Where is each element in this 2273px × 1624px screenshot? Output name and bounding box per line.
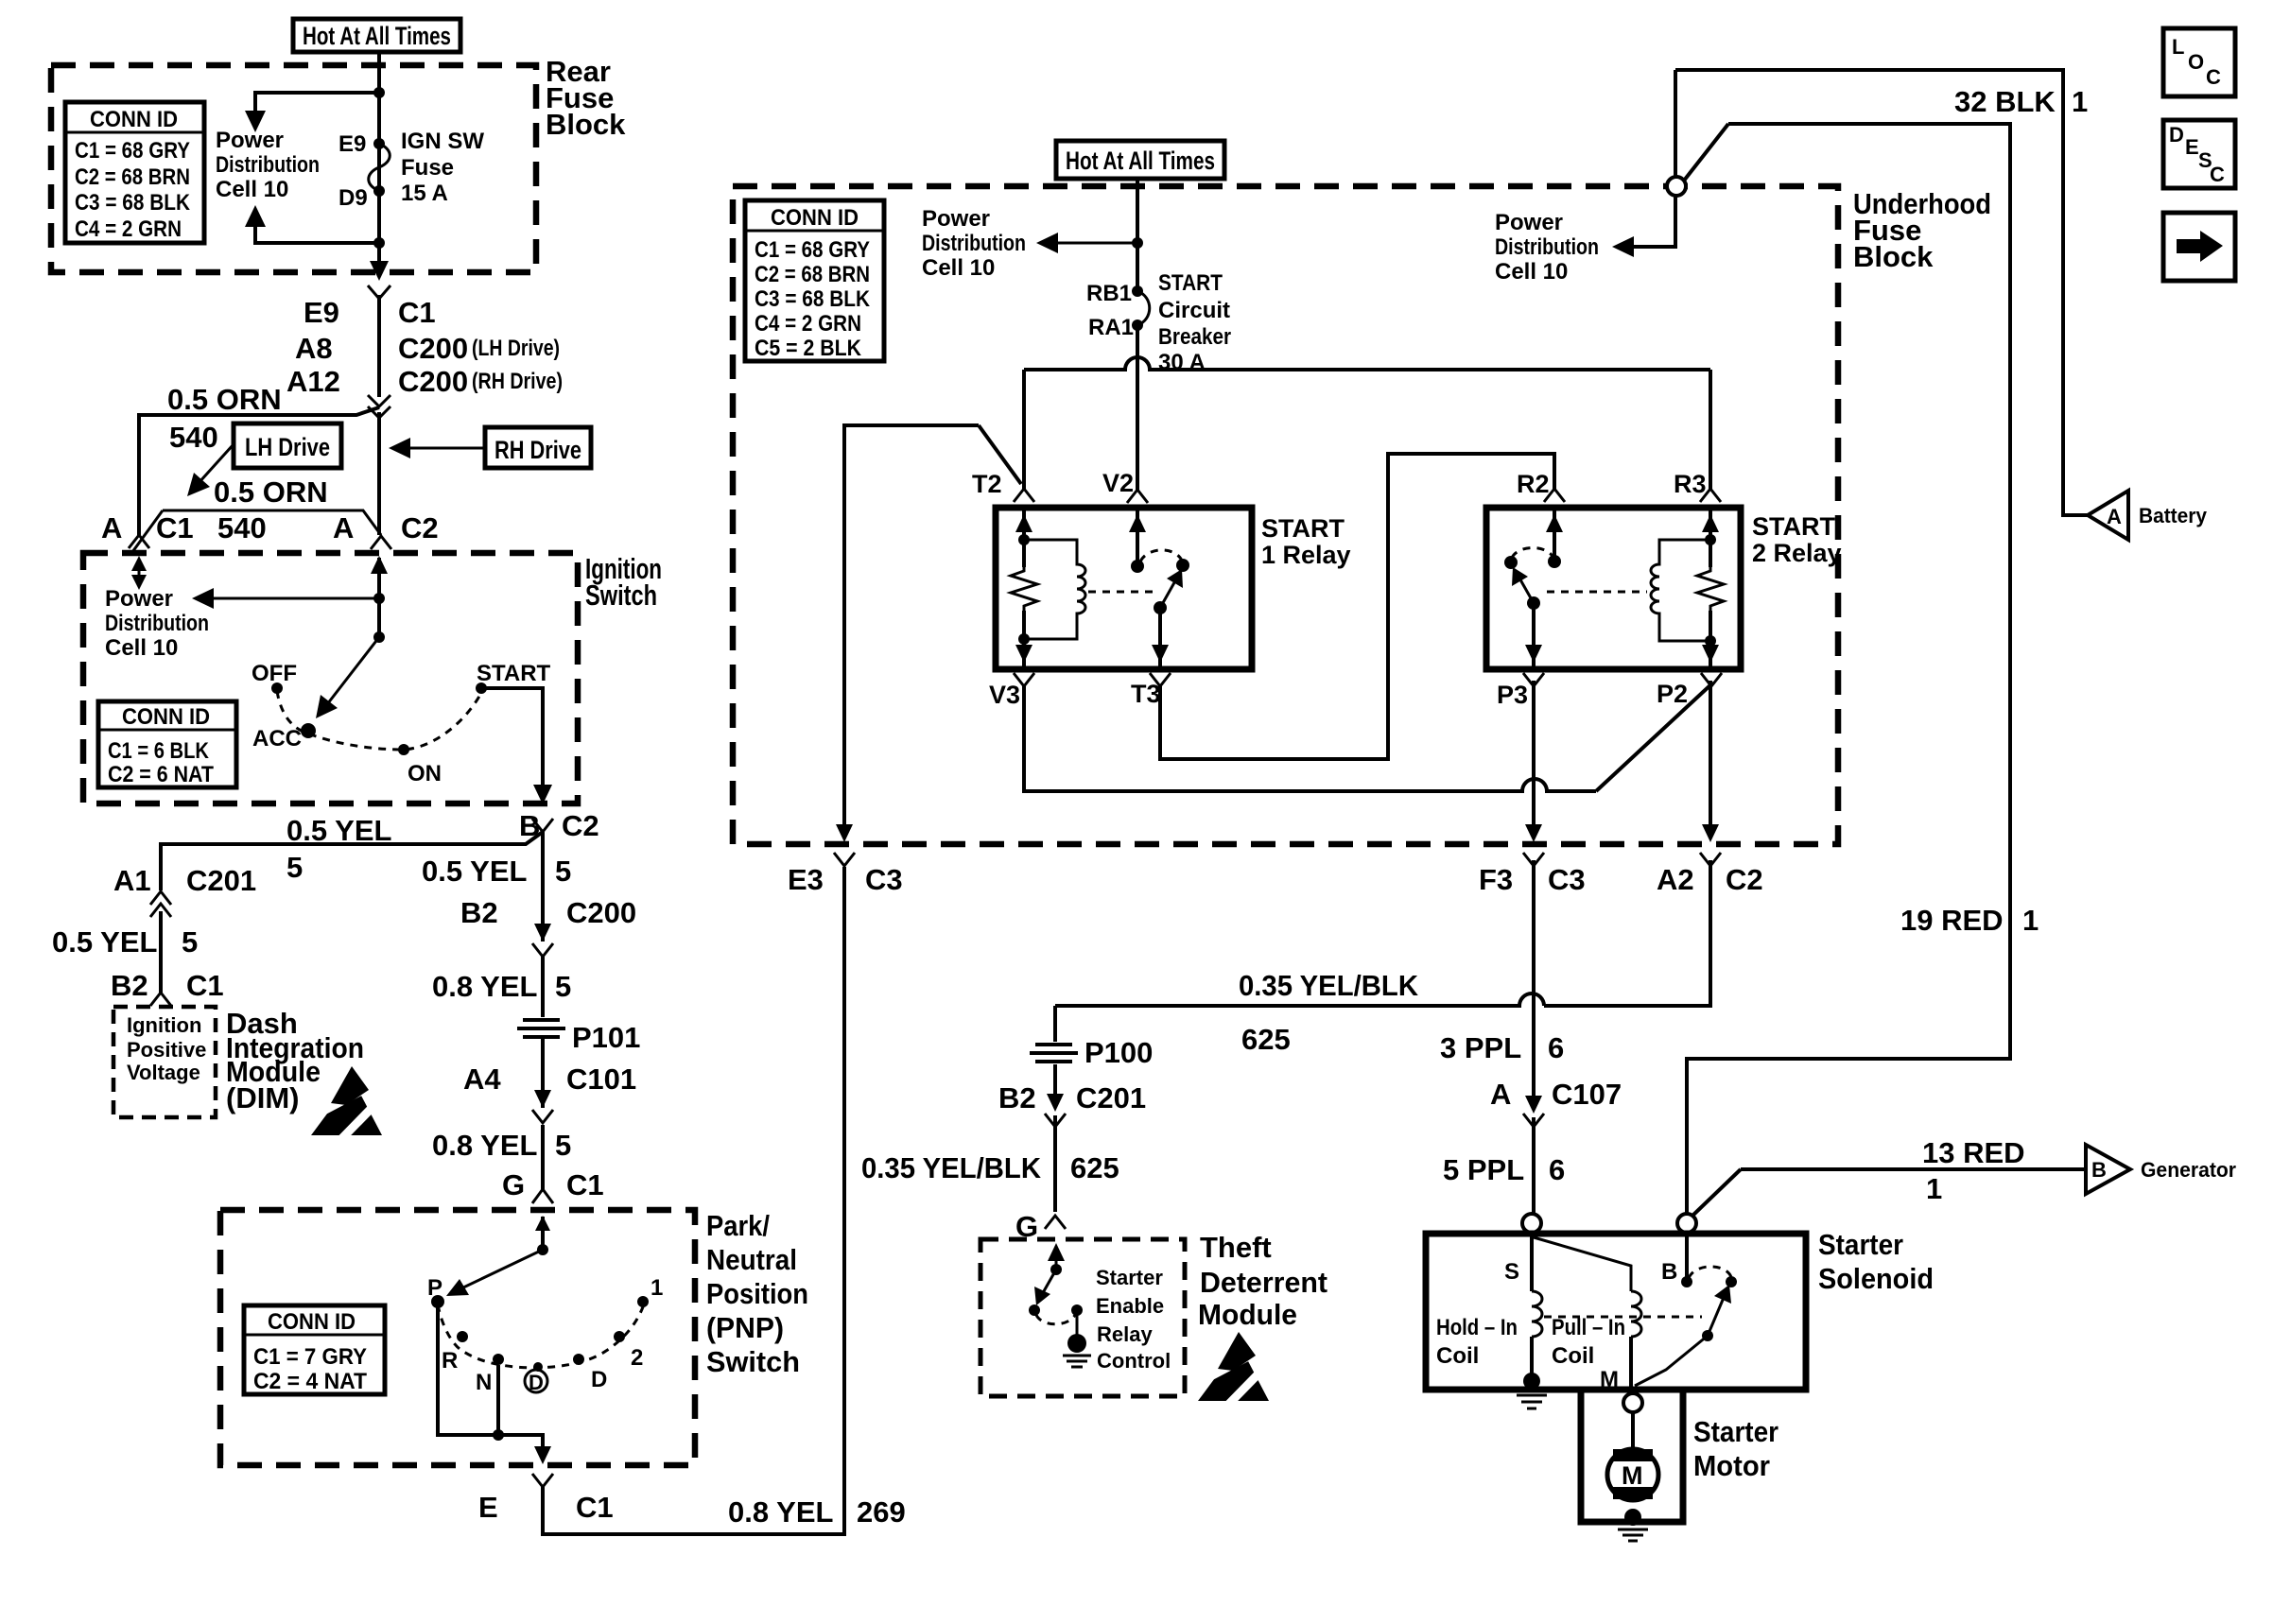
label: Power Distribution Cell 10 (right) <box>1495 210 1599 285</box>
svg-text:Power: Power <box>1495 210 1563 235</box>
coil (relay 1) <box>1024 540 1085 639</box>
svg-text:Solenoid: Solenoid <box>1818 1262 1934 1295</box>
terminal circle: solenoid S <box>1522 1214 1541 1233</box>
svg-text:Distribution: Distribution <box>1495 234 1599 260</box>
node: D drive circled <box>525 1362 547 1394</box>
box: Starter Motor <box>1581 1390 1683 1522</box>
label: 0.5 YEL / 5 (main) <box>422 855 571 888</box>
relay1 open contact <box>1176 559 1189 572</box>
label: Underhood Fuse Block <box>1853 187 1991 273</box>
svg-text:C1: C1 <box>576 1491 614 1524</box>
svg-text:Cell 10: Cell 10 <box>105 635 178 661</box>
svg-text:5: 5 <box>555 855 571 888</box>
node: junction power distribution (underhood) <box>1132 237 1143 249</box>
svg-text:P3: P3 <box>1497 681 1528 709</box>
dashed box: Theft Deterrent Module <box>980 1239 1185 1396</box>
svg-text:B: B <box>2091 1158 2107 1182</box>
wire: N contact to output <box>496 1365 500 1435</box>
svg-text:P2: P2 <box>1657 680 1688 708</box>
switch wiper arm (PNP) <box>446 1250 543 1296</box>
svg-text:Switch: Switch <box>706 1345 800 1378</box>
label: 0.8 YEL / 269 <box>728 1495 906 1529</box>
svg-text:0.5 ORN: 0.5 ORN <box>214 475 328 509</box>
label: Starter Motor <box>1693 1415 1778 1482</box>
svg-text:Coil: Coil <box>1436 1343 1479 1369</box>
wire: P3 down through underhood edge <box>1532 681 1536 832</box>
relay1 coil branch pin T2 <box>1015 508 1032 669</box>
svg-text:A12: A12 <box>286 365 340 398</box>
svg-text:C: C <box>2210 163 2225 186</box>
terminal circle: solenoid M <box>1623 1393 1642 1412</box>
dashed arc (solenoid armature travel) <box>1689 1267 1731 1278</box>
svg-text:B2: B2 <box>460 896 498 929</box>
dashed box: Rear Fuse Block <box>51 65 536 272</box>
svg-text:625: 625 <box>1241 1023 1291 1056</box>
svg-text:E9: E9 <box>304 296 339 329</box>
svg-text:Generator: Generator <box>2141 1158 2236 1182</box>
table: CONN ID (rear fuse block) <box>65 102 204 243</box>
svg-text:Pull – In: Pull – In <box>1552 1315 1625 1340</box>
wire: lower 540 link between A/C1 and A/C2 <box>163 510 381 535</box>
svg-text:C3: C3 <box>1548 863 1586 896</box>
wire: B/C2 down and left to A1 branch <box>161 832 543 890</box>
wire: main vertical to ignition switch <box>377 412 381 535</box>
hold-in coil <box>1532 1291 1542 1337</box>
label: B2 / C201 row <box>998 1081 1146 1114</box>
arrow: into PNP switch <box>535 1216 550 1231</box>
svg-text:E: E <box>2185 135 2199 159</box>
wire: 0.8 YEL 269 run to underhood E3 <box>543 867 844 1534</box>
svg-text:ACC: ACC <box>252 726 302 752</box>
svg-text:P100: P100 <box>1084 1036 1153 1069</box>
connector C2 at ignition B <box>532 819 553 832</box>
connector C1 at DIM B2 <box>150 993 171 1006</box>
label: A12 / C200 (RH Drive) row <box>286 365 563 398</box>
svg-text:Theft: Theft <box>1200 1231 1272 1264</box>
wire: E3 riser and link to T2 <box>844 425 1021 832</box>
wire: hot feed vertical into rear fuse block <box>377 52 381 270</box>
svg-text:(RH Drive): (RH Drive) <box>472 369 563 394</box>
svg-text:Cell 10: Cell 10 <box>216 177 288 202</box>
wire: power distribution tap lower <box>255 224 379 243</box>
svg-text:Distribution: Distribution <box>922 231 1026 256</box>
svg-text:RA1: RA1 <box>1088 315 1134 340</box>
svg-text:15 A: 15 A <box>401 181 448 206</box>
wire: P100 to C201 <box>1053 1064 1057 1108</box>
connector P2 <box>1701 673 1722 686</box>
label: 0.35 YEL/BLK / 625 <box>861 1151 1119 1184</box>
wire: C101 to G/C1 <box>541 1125 545 1189</box>
svg-text:C200: C200 <box>566 896 636 929</box>
wire: 19 RED run from terminal to solenoid B <box>1684 124 2010 1213</box>
generator triangle: B Generator <box>2086 1145 2236 1194</box>
svg-text:1: 1 <box>651 1275 663 1301</box>
connector C200 double chevron <box>368 395 390 418</box>
svg-text:Park/: Park/ <box>706 1209 770 1242</box>
wire: P101 to C101 <box>541 1038 545 1108</box>
relay box: START 2 Relay <box>1486 508 1741 669</box>
svg-text:540: 540 <box>169 421 218 454</box>
svg-text:Hot At All Times: Hot At All Times <box>303 22 451 50</box>
wire: into PNP switch <box>541 1217 545 1250</box>
svg-text:Module: Module <box>1198 1298 1297 1331</box>
connector C1 at E9 <box>368 285 390 299</box>
label: Park/Neutral Position (PNP) Switch <box>706 1209 808 1378</box>
label: START Circuit Breaker 30 A <box>1158 270 1231 375</box>
svg-text:LH Drive: LH Drive <box>245 433 330 461</box>
svg-text:A: A <box>101 511 122 544</box>
connector C1 at PNP E <box>532 1474 553 1487</box>
svg-text:B: B <box>1661 1259 1677 1285</box>
connector V2 <box>1127 490 1148 503</box>
connector C107 at A (arrow+chevron) <box>1523 1096 1544 1127</box>
label: A2 / C2 row <box>1657 863 1763 896</box>
svg-text:CONN ID: CONN ID <box>122 704 210 730</box>
wire: S diagonal to pull-in coil <box>1534 1237 1631 1291</box>
svg-text:START: START <box>1158 270 1223 296</box>
label: 0.8 YEL / 5 (upper) <box>432 970 571 1003</box>
svg-text:D: D <box>529 1371 544 1394</box>
svg-text:Hold – In: Hold – In <box>1436 1315 1518 1340</box>
connector C3 at E3 <box>834 853 855 866</box>
label box: Hot At All Times (rear) <box>293 19 460 52</box>
svg-text:Voltage: Voltage <box>127 1061 200 1084</box>
svg-text:E: E <box>478 1491 498 1524</box>
svg-text:625: 625 <box>1070 1151 1119 1184</box>
wire: A1 to DIM <box>159 911 163 993</box>
svg-text:5: 5 <box>555 1129 571 1162</box>
svg-text:C2 = 4 NAT: C2 = 4 NAT <box>253 1369 367 1394</box>
dashed arc (relay 2 armature travel) <box>1512 548 1553 559</box>
svg-text:Distribution: Distribution <box>216 152 320 178</box>
wire: T3 loop to R2 <box>1160 454 1554 759</box>
svg-text:Control: Control <box>1097 1349 1171 1373</box>
svg-text:B2: B2 <box>998 1081 1036 1114</box>
relay1 switch pin V2 <box>1129 508 1146 573</box>
splice P100 <box>1030 1036 1153 1069</box>
wire: hold-in coil to ground <box>1530 1337 1534 1378</box>
svg-text:(DIM): (DIM) <box>226 1081 299 1114</box>
theft module: relay coil to ground <box>1063 1304 1091 1367</box>
dashed link (solenoid) <box>1544 1316 1702 1319</box>
arrow: down to power distribution text <box>245 111 266 132</box>
label: E3 / C3 row <box>788 863 903 896</box>
wire: A2 drop from underhood <box>1709 681 1712 832</box>
wire: ignition feed down right branch <box>541 957 545 1017</box>
svg-text:S: S <box>1504 1259 1519 1285</box>
svg-text:0.5 YEL: 0.5 YEL <box>286 814 391 847</box>
svg-text:T3: T3 <box>1131 680 1161 708</box>
wire: breaker output down to V2 <box>1136 325 1139 491</box>
splice P101 <box>517 1020 640 1054</box>
svg-text:E3: E3 <box>788 863 824 896</box>
wire: diagonal into A/C1 connector <box>132 510 163 552</box>
connector C201 at B2 (arrow+chevron) <box>1045 1094 1066 1127</box>
svg-text:CONN ID: CONN ID <box>771 205 859 231</box>
svg-text:A: A <box>333 511 354 544</box>
svg-text:32 BLK: 32 BLK <box>1954 85 2056 118</box>
svg-text:Power: Power <box>216 128 284 153</box>
solenoid open contact <box>1726 1276 1737 1287</box>
svg-text:Cell 10: Cell 10 <box>922 255 995 281</box>
svg-text:A: A <box>1490 1078 1511 1111</box>
svg-text:A1: A1 <box>113 864 151 897</box>
svg-text:1: 1 <box>1926 1172 1942 1205</box>
arrow: ignition power distribution left <box>192 588 379 609</box>
node: N contact <box>493 1354 504 1365</box>
label: Starter Solenoid <box>1818 1228 1934 1295</box>
label: Theft Deterrent Module <box>1198 1231 1327 1331</box>
svg-text:G: G <box>502 1168 525 1201</box>
svg-text:C1 = 7 GRY: C1 = 7 GRY <box>253 1344 367 1370</box>
solenoid contact: B pin <box>1681 1233 1692 1287</box>
svg-text:1: 1 <box>2072 85 2088 118</box>
svg-text:M: M <box>1622 1461 1643 1490</box>
node: P contact <box>431 1295 444 1308</box>
node: PNP wiper junction <box>537 1244 548 1255</box>
svg-text:Deterrent: Deterrent <box>1200 1266 1327 1299</box>
wire: 32 BLK battery feed <box>1675 70 2088 515</box>
svg-text:N: N <box>476 1370 492 1395</box>
resistor (relay 1) <box>1011 565 1037 613</box>
svg-text:Starter: Starter <box>1818 1228 1903 1261</box>
label: A8 / C200 (LH Drive) row <box>295 332 560 365</box>
connector T2 <box>1014 489 1034 502</box>
svg-text:D9: D9 <box>338 185 368 211</box>
node: 1 contact <box>637 1296 649 1307</box>
svg-text:V2: V2 <box>1102 469 1134 497</box>
label: B2 / C1 row <box>111 969 224 1002</box>
connector C2 at ignition A (right) <box>371 536 391 549</box>
svg-text:5: 5 <box>555 970 571 1003</box>
svg-text:0.35 YEL/BLK: 0.35 YEL/BLK <box>1239 969 1419 1002</box>
svg-text:Hot At All Times: Hot At All Times <box>1066 147 1215 175</box>
svg-text:1 Relay: 1 Relay <box>1261 541 1351 569</box>
svg-text:C101: C101 <box>566 1063 636 1096</box>
dashed link (relay 2) <box>1547 591 1647 594</box>
svg-text:5: 5 <box>286 851 303 884</box>
node: 2 contact <box>614 1331 625 1342</box>
coil (relay 2) <box>1651 540 1710 641</box>
svg-text:L: L <box>2172 35 2184 59</box>
motor M symbol <box>1607 1412 1658 1500</box>
svg-text:1: 1 <box>2022 904 2039 937</box>
svg-text:F3: F3 <box>1479 863 1513 896</box>
label: START 2 Relay <box>1752 512 1842 567</box>
svg-text:C2 = 68 BRN: C2 = 68 BRN <box>75 164 190 190</box>
label: 0.8 YEL / 5 (lower) <box>432 1129 571 1162</box>
svg-text:13 RED: 13 RED <box>1922 1136 2025 1169</box>
label: Ignition Positive Voltage <box>127 1013 206 1084</box>
svg-text:0.5 YEL: 0.5 YEL <box>52 925 157 959</box>
ground: starter motor <box>1618 1509 1648 1541</box>
node: wiper junction <box>373 631 385 643</box>
label: Rear Fuse Block <box>546 55 626 141</box>
svg-text:T2: T2 <box>972 470 1002 498</box>
svg-text:Starter: Starter <box>1693 1415 1778 1448</box>
svg-text:Battery: Battery <box>2139 504 2208 527</box>
connector C1 at PNP G <box>532 1189 553 1203</box>
svg-text:269: 269 <box>857 1495 906 1529</box>
wire: B/C2 main down <box>541 832 545 942</box>
label: E9 / C1 row <box>304 296 436 329</box>
label box: Hot At All Times (underhood) <box>1056 141 1224 179</box>
svg-text:5: 5 <box>182 925 198 959</box>
svg-text:D: D <box>2169 123 2184 147</box>
svg-text:IGN SW: IGN SW <box>401 129 484 154</box>
label: E / C1 row <box>478 1491 614 1524</box>
svg-text:5 PPL: 5 PPL <box>1443 1153 1524 1186</box>
svg-text:Coil: Coil <box>1552 1343 1594 1369</box>
svg-text:D: D <box>591 1367 607 1392</box>
svg-text:C2: C2 <box>401 511 439 544</box>
svg-text:ON: ON <box>408 761 442 786</box>
wire: rail down to T2 <box>1022 370 1026 490</box>
svg-text:0.5 ORN: 0.5 ORN <box>167 383 282 416</box>
relay box: START 1 Relay <box>996 508 1252 669</box>
box: DESC legend <box>2163 120 2235 188</box>
dashed box: PNP switch <box>220 1210 695 1465</box>
wire: hot feed vertical (underhood) <box>1136 179 1139 291</box>
node: OFF contact <box>271 682 283 694</box>
svg-text:A4: A4 <box>463 1063 501 1096</box>
relay2 switch pin R2 <box>1546 508 1563 568</box>
symbol: ESD warning (DIM) <box>311 1066 382 1140</box>
svg-text:CONN ID: CONN ID <box>268 1309 356 1335</box>
svg-text:P: P <box>427 1275 442 1301</box>
svg-text:540: 540 <box>217 511 267 544</box>
label: G / C1 row <box>502 1168 604 1201</box>
node: R contact <box>457 1331 468 1342</box>
dashed box: Ignition Switch <box>83 553 578 803</box>
label: A / C107 row <box>1490 1078 1622 1111</box>
relay2 armature arm <box>1512 567 1540 610</box>
svg-text:C200: C200 <box>398 332 468 365</box>
arrow: LH Drive to wire <box>187 444 234 496</box>
svg-text:(PNP): (PNP) <box>706 1311 784 1344</box>
svg-text:START: START <box>1261 514 1345 543</box>
node: junction at bottom of fuse <box>373 237 385 249</box>
svg-text:0.8 YEL: 0.8 YEL <box>728 1495 833 1529</box>
arrow: into ignition switch main <box>371 556 388 598</box>
svg-text:R3: R3 <box>1674 470 1707 498</box>
node: junction to power distribution arrow <box>373 593 385 604</box>
label: Hold-In Coil <box>1436 1315 1518 1369</box>
battery triangle: A Battery <box>2088 491 2208 540</box>
svg-text:2 Relay: 2 Relay <box>1752 539 1842 567</box>
label: A4 / C101 row <box>463 1063 636 1096</box>
svg-text:C3: C3 <box>865 863 903 896</box>
dashed link (relay 1) <box>1088 591 1157 594</box>
arrow: PNP output leaving box <box>534 1446 551 1464</box>
svg-text:C2: C2 <box>562 809 599 842</box>
svg-text:C4 = 2 GRN: C4 = 2 GRN <box>755 311 861 337</box>
label: Pull-In Coil <box>1552 1315 1625 1369</box>
svg-text:C201: C201 <box>186 864 256 897</box>
node: ACC contact <box>301 723 316 738</box>
svg-text:C1: C1 <box>566 1168 604 1201</box>
svg-text:3 PPL: 3 PPL <box>1440 1031 1521 1064</box>
svg-text:0.8 YEL: 0.8 YEL <box>432 970 537 1003</box>
switch wiper arm (ignition) <box>316 637 379 718</box>
resistor (relay 2) <box>1697 565 1724 613</box>
dashed arc: ignition detent path <box>277 691 481 750</box>
connector V3 <box>1014 673 1034 686</box>
wire: START to B/C2 <box>481 688 543 794</box>
label: A / C1 540 A / C2 row <box>101 511 439 544</box>
svg-text:0.5 YEL: 0.5 YEL <box>422 855 527 888</box>
table: CONN ID (PNP) <box>244 1305 385 1394</box>
connector R2 <box>1544 489 1565 502</box>
terminal circle: solenoid B <box>1677 1214 1696 1233</box>
wire: P contact to output <box>438 1307 543 1454</box>
table: CONN ID (underhood) <box>745 200 884 361</box>
svg-text:Fuse: Fuse <box>401 155 454 181</box>
wire: rail down to R3 <box>1709 370 1712 490</box>
symbol: double arrow to power distribution (ignition) <box>131 556 147 590</box>
wire: 32 BLK into underhood top <box>1674 70 1677 179</box>
ground: solenoid <box>1517 1373 1547 1408</box>
connector C2 at A2 <box>1700 853 1721 866</box>
svg-text:C5 = 2 BLK: C5 = 2 BLK <box>755 336 862 361</box>
svg-text:P101: P101 <box>572 1021 640 1054</box>
connector C3 at F3 <box>1523 853 1544 866</box>
svg-text:Enable: Enable <box>1096 1294 1164 1318</box>
connector T3 <box>1150 673 1171 686</box>
svg-text:C1: C1 <box>398 296 436 329</box>
arrow: start feed leaving ignition switch <box>533 785 552 804</box>
wire: C201 to theft module G <box>1053 1115 1057 1212</box>
svg-text:19 RED: 19 RED <box>1900 904 2004 937</box>
wire: 625 rail with hop over F3 drop <box>1055 993 1544 1006</box>
svg-text:START: START <box>477 661 551 686</box>
label: B / C2 row <box>519 809 599 842</box>
node: junction N to output <box>493 1429 504 1441</box>
svg-text:(LH Drive): (LH Drive) <box>472 336 560 361</box>
arrow: RH Drive to wire <box>389 438 485 458</box>
svg-text:C2 = 6 NAT: C2 = 6 NAT <box>108 762 214 787</box>
label: 5 PPL / 6 <box>1443 1153 1565 1186</box>
svg-text:C1: C1 <box>156 511 194 544</box>
svg-text:RB1: RB1 <box>1086 281 1132 306</box>
symbol: ESD warning (theft module) <box>1198 1332 1269 1406</box>
wire: breaker distribution rail with hop over V2 feed <box>1024 357 1710 370</box>
dashed box: Underhood Fuse Block <box>733 186 1838 844</box>
label: 19 RED / 1 <box>1900 904 2039 937</box>
label box: RH Drive <box>485 427 591 468</box>
fuse F: IGN SW Fuse 15A <box>369 138 390 197</box>
label: START 1 Relay <box>1261 514 1351 569</box>
svg-text:A: A <box>2107 505 2122 528</box>
svg-text:C4 = 2 GRN: C4 = 2 GRN <box>75 216 182 242</box>
svg-text:Motor: Motor <box>1693 1449 1770 1482</box>
connector C1 at ignition A (left) <box>129 535 149 548</box>
svg-text:Positive: Positive <box>127 1038 206 1062</box>
box: LOC legend <box>2163 28 2235 96</box>
svg-text:2: 2 <box>631 1345 643 1371</box>
wire: terminal to power distribution (right) <box>1620 196 1675 247</box>
svg-text:Block: Block <box>1853 240 1934 273</box>
table: CONN ID (ignition) <box>98 701 236 787</box>
svg-text:R2: R2 <box>1517 470 1550 498</box>
svg-text:C1 = 6 BLK: C1 = 6 BLK <box>108 738 210 764</box>
theft module: starter enable relay control switch <box>1029 1243 1065 1316</box>
arrow: P3 leaving underhood box <box>1525 824 1542 842</box>
svg-text:Breaker: Breaker <box>1158 324 1231 350</box>
label: 32 BLK / 1 <box>1954 85 2088 118</box>
label: 0.5 YEL / 5 (DIM) <box>52 925 198 959</box>
svg-text:0.8 YEL: 0.8 YEL <box>432 1129 537 1162</box>
